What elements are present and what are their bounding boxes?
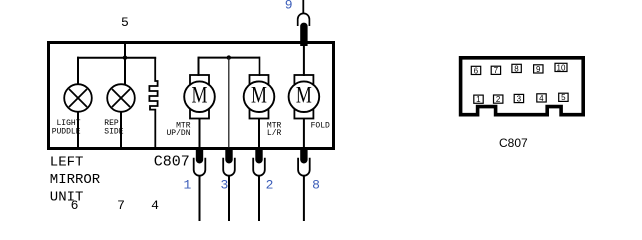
node junction on motor bus (227, 55, 231, 59)
svg-text:8: 8 (514, 64, 519, 73)
motor MTR UP/DN (190, 75, 209, 119)
svg-text:2: 2 (496, 95, 501, 104)
svg-text:1: 1 (476, 95, 481, 104)
resistor (149, 58, 157, 148)
connector C807 pin 1 male terminal (196, 148, 203, 164)
lamp LIGHT PUDDLE (64, 84, 92, 112)
wire pin 9 lead-in from top (302, 0, 304, 13)
face view cavity 1 (474, 95, 483, 103)
wire pin 8 down (303, 176, 305, 221)
svg-text:6: 6 (474, 66, 479, 75)
svg-text:UP/DN: UP/DN (166, 129, 190, 138)
face view cavity 7 (491, 66, 500, 74)
svg-text:2: 2 (266, 178, 274, 193)
face view cavity 6 (471, 66, 480, 74)
wire from pin 5 down to lamp branch and REP. SIDE lamp (124, 44, 126, 85)
box LEFT MIRROR UNIT (49, 43, 334, 149)
connector C807 pin 9 female terminal (298, 13, 310, 26)
svg-text:FOLD: FOLD (311, 121, 330, 130)
wire motor bus horizontal (199, 57, 260, 59)
wire LIGHT PUDDLE lamp to box bottom (77, 111, 79, 148)
face view cavity 9 (534, 65, 543, 73)
svg-text:LEFT: LEFT (50, 155, 84, 171)
wire junction down to pin 3 (228, 58, 230, 148)
svg-text:M: M (296, 84, 312, 109)
face view cavity 3 (514, 94, 523, 102)
svg-text:3: 3 (517, 94, 522, 103)
connector C807 pin 8 female terminal (298, 158, 310, 176)
svg-text:M: M (251, 84, 267, 109)
wire motor L/R to box bottom (258, 118, 260, 148)
svg-text:6: 6 (71, 198, 79, 213)
svg-text:M: M (192, 84, 208, 109)
wire pin 9 to motor FOLD (303, 44, 305, 76)
connector C807 face view housing (461, 58, 584, 115)
face view cavity 4 (537, 94, 546, 102)
svg-text:1: 1 (184, 178, 192, 193)
wire motor FOLD to box bottom (303, 118, 305, 148)
connector C807 pin 2 male terminal (255, 148, 262, 164)
node junction on lamp branch (123, 56, 127, 60)
face view cavity 2 (494, 95, 503, 103)
wire lamp branch horizontal (77, 57, 156, 59)
svg-text:4: 4 (151, 198, 159, 213)
svg-text:L/R: L/R (267, 129, 282, 138)
face view cavity 8 (512, 64, 521, 72)
connector C807 pin 3 male terminal (225, 148, 232, 164)
svg-text:7: 7 (117, 198, 125, 213)
svg-text:C807: C807 (499, 136, 528, 150)
svg-text:SIDE: SIDE (104, 127, 123, 136)
svg-text:9: 9 (285, 0, 293, 13)
wire REP. SIDE lamp to box bottom (120, 111, 122, 148)
svg-text:10: 10 (557, 63, 566, 72)
connector C807 pin 8 male terminal (300, 148, 307, 164)
face view cavity 5 (559, 93, 568, 101)
lamp REP. SIDE (107, 84, 135, 112)
wire drop to LIGHT PUDDLE lamp (77, 57, 79, 85)
svg-text:MIRROR: MIRROR (50, 172, 101, 188)
motor FOLD (294, 75, 313, 119)
svg-text:5: 5 (121, 15, 129, 30)
connector C807 pin 9 male terminal (300, 23, 307, 46)
svg-text:7: 7 (494, 66, 499, 75)
connector C807 pin 2 female terminal (253, 158, 265, 176)
connector C807 pin 3 female terminal (223, 158, 235, 176)
wire motor UP/DN to box bottom (199, 118, 201, 148)
svg-text:5: 5 (561, 93, 566, 102)
svg-text:9: 9 (536, 65, 541, 74)
svg-text:8: 8 (312, 178, 320, 193)
wire pin 2 down (258, 176, 260, 221)
face view cavity 10 (555, 63, 567, 71)
svg-text:C807: C807 (154, 154, 190, 171)
connector C807 pin 1 female terminal (194, 158, 206, 176)
wire bus to motor UP/DN (198, 57, 200, 76)
motor MTR L/R (250, 75, 269, 119)
wire pin 3 down (228, 176, 230, 221)
wire pin 1 down (199, 176, 201, 221)
svg-text:4: 4 (539, 94, 544, 103)
svg-text:PUDDLE: PUDDLE (52, 127, 81, 136)
wire bus to motor L/R (259, 57, 261, 76)
svg-text:3: 3 (221, 178, 229, 193)
